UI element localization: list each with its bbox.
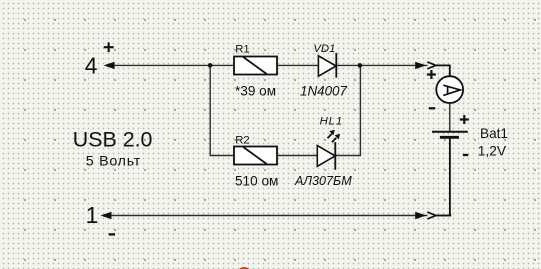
pin 4 plus bbox=[104, 42, 114, 52]
ammeter plus bbox=[427, 70, 436, 79]
battery plus bbox=[460, 115, 469, 124]
arrow bottom-right chevron bbox=[428, 215, 435, 217]
svg-text:R2: R2 bbox=[235, 134, 249, 146]
svg-text:1N4007: 1N4007 bbox=[300, 84, 347, 99]
svg-text:HL1: HL1 bbox=[320, 115, 343, 127]
svg-text:1: 1 bbox=[86, 202, 99, 228]
svg-text:5 Вольт: 5 Вольт bbox=[86, 153, 141, 169]
battery minus bbox=[463, 154, 468, 156]
arrow top-right chevron bbox=[428, 64, 435, 66]
arrow pin1 left bbox=[101, 212, 112, 219]
svg-text:1,2V: 1,2V bbox=[478, 144, 507, 159]
wire R2 to HL1 bbox=[277, 155, 318, 157]
arrow top-right filled bbox=[415, 62, 426, 69]
resistor R1 bbox=[234, 57, 277, 75]
wire top rail from pin4 arrow to right corner bbox=[106, 65, 450, 76]
node junction dot left bbox=[208, 63, 213, 68]
wire HL1 cathode up to top node bbox=[335, 65, 360, 155]
diode VD1 bbox=[318, 53, 336, 78]
wire left branch vertical from node to R2 row bbox=[210, 65, 234, 155]
resistor R2 bbox=[234, 147, 277, 165]
arrow pin4 left bbox=[104, 62, 115, 69]
arrow bottom-right filled bbox=[415, 212, 426, 219]
wire ammeter to battery bbox=[449, 103, 451, 132]
svg-text:4: 4 bbox=[85, 53, 98, 79]
ammeter minus bbox=[429, 107, 435, 109]
svg-text:Bat1: Bat1 bbox=[480, 126, 508, 141]
red watermark fragment at bottom edge bbox=[239, 267, 249, 269]
svg-text:510 ом: 510 ом bbox=[235, 173, 278, 188]
ammeter PA bbox=[436, 76, 463, 103]
wire battery down to bottom rail bbox=[449, 137, 451, 216]
battery Bat1 bbox=[432, 132, 468, 138]
svg-text:VD1: VD1 bbox=[313, 43, 335, 55]
LED HL1 bbox=[317, 130, 340, 170]
svg-text:*39 ом: *39 ом bbox=[235, 83, 276, 98]
svg-text:АЛ307БМ: АЛ307БМ bbox=[294, 174, 352, 188]
node junction dot right bbox=[358, 63, 363, 68]
pin 1 minus bbox=[109, 233, 115, 235]
svg-text:USB 2.0: USB 2.0 bbox=[73, 127, 153, 151]
wire bottom rail bbox=[103, 214, 451, 216]
svg-text:R1: R1 bbox=[235, 44, 249, 56]
